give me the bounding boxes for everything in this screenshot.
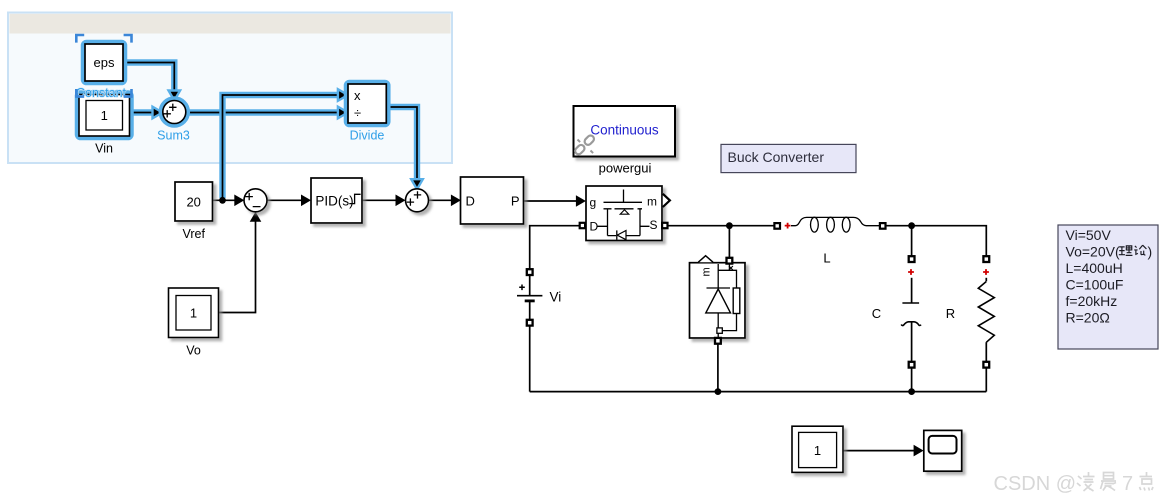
- constant 1 (scope input, double border): [792, 426, 843, 472]
- svg-text:Sum3: Sum3: [157, 129, 190, 143]
- constant Vin (selected, double border): [79, 95, 130, 137]
- wire Divide output down to Sum2 (selected glow): [386, 107, 423, 189]
- svg-text:20: 20: [186, 194, 200, 209]
- pid controller PID(s): [311, 178, 362, 223]
- junction C bottom: [908, 388, 915, 395]
- bottom rail: [530, 391, 987, 393]
- dc source Vi: [517, 269, 561, 325]
- svg-text:Continuous: Continuous: [590, 123, 659, 138]
- wire branch Vref up to Divide top input (selected glow): [223, 89, 348, 200]
- subsystem D-P: [461, 177, 524, 224]
- svg-text:m: m: [647, 195, 657, 209]
- svg-text:PID(s): PID(s): [315, 193, 353, 208]
- svg-text:Vref: Vref: [182, 227, 205, 241]
- constant eps (selected): [85, 44, 123, 81]
- svg-text:Vi: Vi: [550, 290, 562, 305]
- svg-text:f=20kHz: f=20kHz: [1066, 293, 1118, 309]
- glyph li (CJK): [1119, 246, 1133, 256]
- scope block: [924, 430, 962, 471]
- selection rectangle: [8, 13, 452, 164]
- svg-text:R: R: [946, 306, 955, 321]
- svg-text:D: D: [466, 194, 475, 209]
- svg-text:1: 1: [190, 306, 197, 321]
- svg-text:S: S: [649, 218, 657, 232]
- svg-text:powergui: powergui: [599, 161, 652, 176]
- svg-text:L=400uH: L=400uH: [1066, 260, 1123, 276]
- svg-text:÷: ÷: [354, 105, 361, 120]
- svg-text:7: 7: [1122, 473, 1133, 495]
- wire down to diode: [728, 226, 730, 258]
- port square MOSFET S: [662, 223, 667, 228]
- watermark glyph dian (CJK): [1140, 472, 1154, 491]
- sum Sum2 (feedforward add): [406, 189, 429, 212]
- selection corner brackets eps: [76, 35, 131, 97]
- sum Sum3 (selected): [163, 101, 186, 124]
- svg-text:P: P: [511, 194, 520, 209]
- wire MOSFET S to L (top rail): [668, 225, 775, 227]
- wire eps to Sum3 (selected glow): [123, 63, 180, 101]
- wire L to C junction and R corner (top rail right): [886, 226, 987, 257]
- powergui block: [574, 106, 676, 157]
- svg-text:x: x: [354, 88, 361, 103]
- wire Sum1 to PID: [267, 195, 311, 207]
- broken link icon: [574, 134, 596, 156]
- wire P to MOSFET g: [524, 195, 586, 207]
- resistor R branch: [978, 256, 994, 391]
- svg-text:eps: eps: [94, 55, 115, 70]
- wire Vo to Sum1: [219, 212, 262, 313]
- wire Sum2 to subsystem D: [428, 195, 461, 207]
- svg-text:m: m: [701, 267, 713, 276]
- watermark glyph ling (CJK): [1077, 472, 1095, 491]
- wire PID to Sum2: [362, 195, 406, 207]
- constant Vref 20: [175, 182, 213, 221]
- wire Sum3 to Divide bottom input (selected glow): [185, 107, 348, 119]
- port m output chevron: [663, 194, 670, 207]
- svg-text:Vin: Vin: [95, 142, 113, 156]
- svg-text:Divide: Divide: [350, 129, 385, 143]
- wire Vref to Sum1: [213, 195, 245, 207]
- port square MOSFET D: [580, 223, 585, 228]
- port square diode bottom: [715, 338, 721, 344]
- sum Sum1 (error): [244, 189, 267, 212]
- annotation Buck Converter: [721, 144, 856, 172]
- toolbar band: [10, 14, 451, 34]
- junction Vref branch: [219, 197, 226, 204]
- junction diode bottom: [715, 388, 722, 395]
- svg-text:C: C: [872, 306, 881, 321]
- svg-text:R=20Ω: R=20Ω: [1066, 310, 1110, 326]
- wire Vi to MOSFET D: [530, 226, 580, 270]
- svg-text:Buck Converter: Buck Converter: [728, 149, 825, 165]
- svg-text:L: L: [823, 251, 830, 266]
- wire diode bottom to rail: [717, 344, 719, 392]
- mosfet block Q1: [586, 186, 670, 241]
- capacitor C branch: [901, 226, 921, 392]
- svg-text:1: 1: [814, 443, 821, 458]
- svg-text:1: 1: [101, 108, 108, 123]
- svg-text:Vo=20V(: Vo=20V(: [1066, 244, 1120, 260]
- junction diode top: [726, 222, 733, 229]
- measurement caret: [698, 256, 713, 263]
- inductor L: [774, 217, 885, 232]
- svg-text:CSDN @: CSDN @: [994, 473, 1077, 495]
- svg-text:Vi=50V: Vi=50V: [1066, 227, 1112, 243]
- svg-text:g: g: [590, 196, 597, 210]
- glyph lun (CJK): [1134, 245, 1146, 255]
- wire Vi to bottom rail: [529, 326, 531, 392]
- svg-text:C=100uF: C=100uF: [1066, 277, 1124, 293]
- watermark CSDN: [994, 473, 1134, 495]
- watermark glyph chen (CJK): [1101, 473, 1117, 491]
- constant Vo (double border): [169, 288, 219, 338]
- junction C top: [908, 222, 915, 229]
- diode block (with snubber): [690, 256, 746, 338]
- svg-text:): ): [1148, 244, 1153, 260]
- wire Vin to Sum3 (selected glow): [130, 107, 163, 119]
- svg-text:Vo: Vo: [186, 344, 201, 358]
- wire Constant1 to Scope: [843, 445, 924, 457]
- port square diode top: [727, 258, 733, 264]
- annotation parameters box: [1058, 225, 1158, 349]
- divide block Divide (selected): [348, 84, 386, 123]
